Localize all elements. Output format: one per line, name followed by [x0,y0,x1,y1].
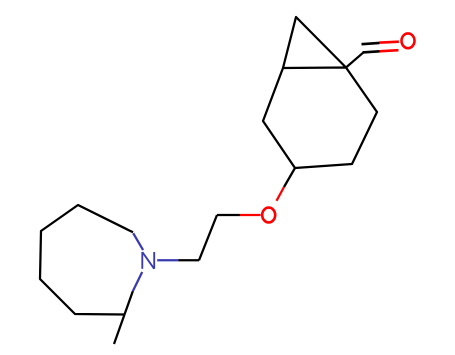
carbonyl C=O double bond black halves [362,43,380,44]
carbocycle ring (hexagon) [263,68,377,169]
bond ether O to CH2b : red half [240,214,261,216]
bridge CH2 apex (bicyclic bridge) [283,17,346,68]
bond ring V5 to ether O : red half [277,187,285,201]
carbonyl C=O double bond red halves [380,40,399,43]
azepane ring carbons polyline P6-P5-P4-P3-P2-P1 [40,205,133,315]
N atom label [142,252,154,269]
ether O atom label [262,208,275,223]
methyl substituent on ring P1 [114,315,125,345]
bond CH2b to CH2a [199,215,217,260]
bond N to ring P6 : blue (full) [133,233,143,250]
aldehyde O atom label [402,33,415,48]
bond CH2a to N : blue half [157,259,178,261]
bond ring to carbonyl carbon [346,53,363,68]
bond ether O to CH2b : black half [217,214,240,216]
bond N to ring P1 : black half [125,291,133,314]
bond CH2a to N : black half [179,259,200,261]
bond N to ring P1 : blue half [133,272,142,291]
bond ring V5 to ether O : black half [284,168,295,187]
